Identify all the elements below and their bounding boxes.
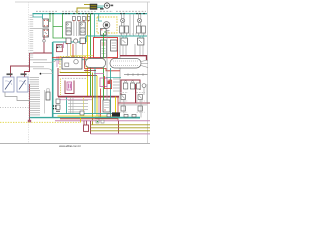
harness olive line 1 xyxy=(91,124,151,126)
relay r3 xyxy=(137,83,141,89)
wire pink horizontal xyxy=(94,73,104,75)
wire leads below connector xyxy=(74,22,79,37)
maroon vertical left edge xyxy=(29,84,31,121)
wire grey vertical x44.5 xyxy=(44,90,46,114)
maroon connector box bottom xyxy=(84,125,89,131)
wire pink horizontal below bus xyxy=(58,99,92,101)
gauge G1 xyxy=(3,77,14,92)
switch column K1 xyxy=(66,22,71,35)
wire yellow vertical x83.5 xyxy=(83,97,85,116)
switch S1 xyxy=(43,19,49,27)
label dashes right switches xyxy=(120,93,145,113)
wire red bus xyxy=(52,57,118,59)
flasher relay box xyxy=(62,58,82,70)
flasher highlight box (dashed yellow) xyxy=(60,57,86,73)
wire grey dotted run left xyxy=(0,107,30,109)
wire grey component drops xyxy=(68,44,83,58)
wire grey verticals center xyxy=(71,97,74,114)
wire teal into motor box xyxy=(99,14,102,21)
relay r1 xyxy=(123,81,127,89)
inline connector circle xyxy=(43,40,46,43)
tiny connector boxes on pink bus xyxy=(96,120,104,123)
lamp unit narrow box left xyxy=(46,89,50,100)
wire teal vertical x53 xyxy=(52,42,54,118)
wiper motor M1 xyxy=(103,22,110,32)
wire teal bottom bus thin xyxy=(53,113,112,115)
pill connector P1 xyxy=(86,59,106,68)
wire grey vertical x120 xyxy=(119,36,121,103)
wire grey gauge return xyxy=(5,92,30,101)
wire yellow run xyxy=(71,44,94,56)
label row above bus2 xyxy=(120,33,146,35)
wire teal bottom bus main xyxy=(30,117,96,119)
maroon main bus thick xyxy=(58,96,119,98)
connector row with terminals xyxy=(72,17,90,22)
small stack column xyxy=(53,99,60,112)
pill P2 pin text xyxy=(113,61,138,66)
maroon drops bottom center xyxy=(84,121,87,125)
sensor circle xyxy=(142,84,146,95)
label column right of red loop xyxy=(113,79,120,91)
switch group SW1 xyxy=(121,95,125,112)
label row above bus xyxy=(36,10,146,12)
switch column K2 xyxy=(80,22,85,35)
connector block dark xyxy=(112,112,120,116)
sheet right border xyxy=(147,2,149,144)
label rows center-bottom xyxy=(68,101,88,113)
relay r2 xyxy=(130,81,134,89)
terminal dots component row xyxy=(66,43,67,44)
fold mark dotted vertical xyxy=(28,2,30,143)
yellow dotted vertical xyxy=(60,79,62,96)
lamp group L1 xyxy=(120,14,129,36)
wire red bottom xyxy=(60,118,118,120)
maroon wire run left xyxy=(11,53,53,77)
component row: horn circle xyxy=(74,39,78,43)
teal supply bus xyxy=(33,13,148,15)
wire maroon vertical x118.5 xyxy=(118,121,120,134)
fuse block loop xyxy=(57,45,63,52)
junction blob maroon-yellow xyxy=(28,120,31,123)
wire teal branch y42 xyxy=(53,36,86,42)
wire grey drops below relays xyxy=(123,44,143,56)
battery box xyxy=(111,40,118,51)
pink component box xyxy=(100,78,107,87)
wire grey harness bottom xyxy=(33,69,52,72)
wire red vertical xyxy=(72,44,74,58)
maroon battery bus xyxy=(120,56,147,60)
sheet bottom border xyxy=(0,143,150,145)
wire olive to coil xyxy=(77,5,90,14)
label IGN xyxy=(110,5,113,7)
component row: box xyxy=(66,38,71,44)
wire olive horizontal xyxy=(60,72,91,74)
wire green long x90.5 xyxy=(90,14,92,97)
instrument unit box xyxy=(103,100,110,112)
maroon inner loop xyxy=(65,81,74,94)
wire teal coil to meter xyxy=(97,6,105,8)
wire teal vertical x94.5 xyxy=(94,14,96,38)
wire node to teal xyxy=(41,73,53,75)
small box above regulator xyxy=(101,29,107,36)
wire maroon stub xyxy=(84,70,96,72)
switch S2 xyxy=(43,29,49,37)
regulator inner box xyxy=(101,40,107,58)
harness olive line 2 xyxy=(91,127,151,129)
wire grey stub left xyxy=(30,28,43,30)
component row: box2 xyxy=(80,38,85,44)
wire green drops from bus xyxy=(50,14,66,38)
ammeter A1 xyxy=(104,3,109,8)
wire pink risers xyxy=(57,56,59,67)
wire olive vertical x87.5 xyxy=(87,14,89,36)
wire grey verticals mid lamps xyxy=(130,14,134,36)
pill connector P2 xyxy=(110,59,141,69)
wire pale yellow dotted xyxy=(0,121,81,123)
wire teal horizontal right xyxy=(106,77,121,79)
label gauge G1 xyxy=(7,73,13,75)
ignition coil T1 xyxy=(90,4,97,9)
label gauge G2 xyxy=(21,73,27,75)
wire pink bottom xyxy=(55,120,150,122)
grey connector line right xyxy=(124,73,148,75)
wire teal feed to switch S1 xyxy=(33,14,43,19)
wire pink stub xyxy=(63,42,65,48)
red loop component xyxy=(105,76,112,89)
relay box R-group right xyxy=(121,36,144,45)
harness pink line xyxy=(91,133,151,135)
wire yellow long x87.5 xyxy=(87,36,89,97)
wire grey horizontal right low xyxy=(118,104,147,106)
red control box xyxy=(94,38,118,58)
wire teal drop x66.5 xyxy=(66,97,68,114)
wiper motor highlight box (dashed) xyxy=(97,17,117,33)
wire bundle verticals center-right xyxy=(92,73,94,125)
gauge G2 xyxy=(17,77,28,92)
junction node xyxy=(40,73,42,75)
pin list text column xyxy=(30,15,34,57)
label row center xyxy=(62,77,88,79)
wire maroon horizontal right low xyxy=(118,102,150,104)
wire teal horizontal y59.5 xyxy=(53,59,92,61)
svg-text:www.altfiat.com.br: www.altfiat.com.br xyxy=(59,144,81,148)
maroon junction box right xyxy=(121,80,140,95)
harness olive line 3 xyxy=(91,130,151,132)
wire maroon horizontal xyxy=(58,75,97,77)
wire maroon vertical x90.5 xyxy=(90,121,92,134)
wire yellow bottom xyxy=(58,115,116,117)
teal bus 2 xyxy=(86,35,147,37)
wire grey verticals right bottom xyxy=(124,84,147,118)
sheet top border xyxy=(15,1,150,3)
wire yellow riser xyxy=(80,118,82,123)
maroon distribution left edge xyxy=(57,68,59,97)
wire maroon thick vertical xyxy=(135,84,137,103)
switch group SW2 xyxy=(138,95,142,112)
bus junction dots xyxy=(49,13,144,14)
wire maroon from S2 down xyxy=(43,37,45,53)
wire red wrap xyxy=(85,58,121,71)
red inner element xyxy=(108,81,111,84)
lamp group L2 xyxy=(136,14,145,36)
pink relay component xyxy=(67,82,72,90)
wire grey harness top xyxy=(33,59,56,62)
label BAT xyxy=(100,8,104,10)
harness fan right xyxy=(141,60,148,68)
terminal boxes row xyxy=(80,111,136,117)
